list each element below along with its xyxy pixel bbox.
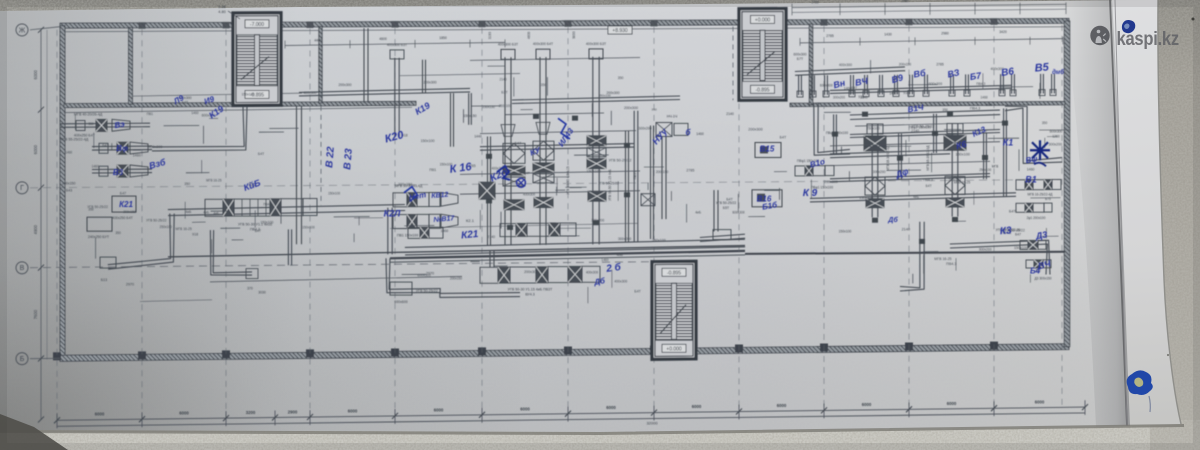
wall: building bottom — [60, 344, 1069, 362]
svg-text:-7.000: -7.000 — [250, 22, 264, 28]
duct: vertical drop x299 — [301, 106, 303, 244]
blue ink blot bottom-right — [1127, 370, 1153, 412]
svg-text:Б4Т: Б4Т — [634, 290, 641, 294]
svg-text:1460: 1460 — [65, 151, 72, 155]
fan row right-bottom x1020 — [1016, 180, 1061, 202]
svg-text:Б4Т: Б4Т — [102, 144, 109, 148]
kaspi.kz watermark — [1090, 26, 1179, 50]
svg-text:Б4: Б4 — [1030, 267, 1041, 276]
svg-text:К1: К1 — [1003, 138, 1014, 148]
svg-text:3190: 3190 — [488, 32, 492, 40]
svg-text:1460: 1460 — [92, 165, 99, 169]
svg-text:2140: 2140 — [902, 228, 910, 232]
svg-text:К3: К3 — [999, 225, 1012, 237]
blue heavy scribble К20 — [497, 166, 510, 180]
svg-text:350: 350 — [184, 182, 190, 186]
small specks on wall — [1192, 18, 1195, 21]
clutter centre — [398, 134, 642, 304]
svg-text:4иБ: 4иБ — [213, 211, 219, 215]
thin line under inner wall left — [64, 107, 412, 112]
svg-text:150x100: 150x100 — [260, 220, 273, 224]
svg-text:350: 350 — [88, 207, 94, 211]
dim line y62 centre — [470, 58, 640, 61]
box В15 — [755, 143, 781, 158]
svg-text:МГВ 16-25/22-4Д: МГВ 16-25/22-4Д — [1028, 192, 1054, 196]
blue notes group — [113, 61, 1064, 287]
svg-text:200x150: 200x150 — [450, 276, 462, 280]
svg-text:300x200: 300x200 — [833, 95, 845, 99]
svg-text:370: 370 — [247, 287, 253, 291]
lower right К3 ducts — [950, 228, 1052, 281]
svg-text:3420: 3420 — [999, 30, 1007, 34]
right extra crossruns — [830, 122, 1005, 166]
svg-text:4600: 4600 — [527, 32, 531, 40]
svg-text:Дб: Дб — [887, 216, 898, 224]
svg-text:Д3: Д3 — [1034, 229, 1048, 241]
svg-text:6000: 6000 — [777, 403, 787, 408]
svg-text:Б47: Б47 — [515, 141, 522, 145]
svg-text:Б13: Б13 — [101, 278, 107, 282]
elevation box +8.930 top centre — [608, 26, 632, 34]
svg-text:6000: 6000 — [434, 407, 444, 412]
duct: centre extra vertical x627 — [628, 131, 630, 243]
svg-text:ПВ4.3: ПВ4.3 — [976, 82, 985, 86]
svg-text:1430: 1430 — [884, 33, 892, 37]
duct: vertical x397 upper — [387, 43, 407, 137]
svg-text:6000: 6000 — [33, 144, 38, 154]
svg-text:В3: В3 — [113, 168, 124, 177]
svg-text:350: 350 — [618, 76, 624, 80]
blue scribble НУ near 410,200 — [404, 187, 417, 202]
AHU column right 2 x955 — [926, 123, 966, 216]
svg-text:2785: 2785 — [826, 34, 834, 38]
svg-text:2140: 2140 — [911, 129, 919, 133]
svg-text:Б: Б — [20, 356, 25, 363]
svg-text:ПВ3Т: ПВ3Т — [633, 171, 637, 179]
wall: building left — [60, 26, 65, 360]
svg-text:4400: 4400 — [314, 38, 322, 42]
svg-text:250x100: 250x100 — [482, 105, 495, 109]
svg-text:6000: 6000 — [348, 409, 358, 414]
svg-text:250x100: 250x100 — [866, 126, 879, 130]
svg-text:МГВ 16-25: МГВ 16-25 — [206, 179, 222, 183]
svg-text:2785: 2785 — [686, 169, 694, 173]
svg-text:3030: 3030 — [258, 290, 266, 294]
svg-text:Б4Т: Б4Т — [780, 136, 787, 140]
duct: upper horizontal y90 left-centre — [299, 88, 470, 92]
centre thin crossruns — [460, 113, 640, 194]
staircase ST3 bottom-centre — [652, 261, 696, 359]
svg-text:Б3Т: Б3Т — [501, 90, 508, 94]
AHU column right 1 x875 — [864, 124, 890, 217]
duct: main corridor run left — [168, 205, 405, 210]
svg-text:Б4Т: Б4Т — [726, 198, 733, 202]
duct right of stair3 top — [700, 230, 745, 242]
svg-text:350: 350 — [651, 108, 656, 112]
small ducts upper-centre-left — [400, 60, 520, 125]
svg-text:Г: Г — [20, 185, 24, 192]
svg-text:400x300: 400x300 — [614, 280, 627, 284]
svg-text:600x300: 600x300 — [793, 53, 806, 57]
svg-text:1460: 1460 — [441, 229, 449, 233]
duct: drop x492 to bottom row — [493, 250, 495, 267]
svg-text:4иБ: 4иБ — [616, 253, 623, 257]
svg-text:МГВ 16-25: МГВ 16-25 — [175, 227, 191, 231]
duct: right top stubs — [797, 74, 1056, 97]
svg-text:9800: 9800 — [572, 31, 576, 39]
svg-text:Ж: Ж — [19, 27, 26, 34]
duct: elbow bottom-left — [108, 214, 171, 265]
clutter right low — [902, 228, 1059, 284]
centre dark fittings — [486, 114, 630, 230]
svg-text:2140: 2140 — [499, 78, 506, 82]
svg-text:6000: 6000 — [862, 402, 872, 407]
svg-text:ПВ1: ПВ1 — [429, 168, 436, 172]
svg-text:918: 918 — [840, 102, 846, 106]
blue heavy scribble ВУ star — [1030, 140, 1050, 166]
svg-text:4иБ: 4иБ — [695, 211, 701, 215]
svg-text:200x300: 200x300 — [338, 83, 351, 87]
wall: building right — [1064, 21, 1070, 347]
grid: horizontal dashed axis lines — [30, 180, 1060, 188]
staircase ST2 top-middle — [739, 9, 786, 101]
wall: corridor vertical x636 — [637, 111, 639, 242]
svg-text:Б4Т: Б4Т — [926, 184, 932, 188]
svg-text:Б4Т: Б4Т — [1009, 209, 1017, 213]
svg-text:400x300: 400x300 — [839, 63, 852, 67]
svg-text:Б4Т: Б4Т — [258, 152, 264, 156]
right dark fittings — [832, 111, 1008, 244]
svg-text:6000: 6000 — [1035, 400, 1045, 405]
paper bottom edge shadow — [0, 424, 1184, 435]
svg-text:МГВ 55-25/22-4Д: МГВ 55-25/22-4Д — [60, 138, 89, 142]
svg-text:К21: К21 — [461, 229, 480, 242]
dim line 2970 — [210, 272, 462, 291]
svg-text:1460: 1460 — [696, 132, 704, 136]
svg-text:918: 918 — [903, 91, 909, 95]
svg-text:УГВ 50-25/22: УГВ 50-25/22 — [416, 289, 438, 293]
svg-text:200x300: 200x300 — [606, 91, 619, 95]
svg-text:4900: 4900 — [33, 224, 38, 234]
svg-text:200x300: 200x300 — [524, 270, 538, 274]
clutter right wing — [811, 60, 1070, 221]
duct: right horizontal y121 — [850, 110, 1000, 115]
svg-text:Вφ: Вφ — [116, 144, 128, 153]
clutter mid — [638, 108, 787, 243]
box K21 left — [112, 196, 136, 220]
duct: branch x452 — [453, 93, 455, 147]
svg-text:В 23: В 23 — [342, 148, 355, 170]
svg-text:200x300: 200x300 — [748, 128, 762, 132]
svg-text:К2Л: К2Л — [384, 209, 402, 219]
svg-text:ПВ4.3: ПВ4.3 — [946, 262, 956, 266]
dim texts top-left cluster — [178, 5, 316, 104]
svg-text:+0.000: +0.000 — [755, 18, 771, 24]
svg-text:350: 350 — [1042, 121, 1048, 125]
svg-text:КВ12: КВ12 — [431, 192, 449, 200]
dim line top middle — [285, 31, 576, 48]
svg-text:150x100: 150x100 — [241, 93, 254, 97]
wall: inner vertical x811 — [809, 24, 813, 105]
svg-text:6000: 6000 — [606, 405, 616, 410]
svg-text:2φ1 200x100: 2φ1 200x100 — [1027, 216, 1046, 220]
svg-text:НЧ-1Ч: НЧ-1Ч — [667, 115, 678, 119]
svg-text:К2.1: К2.1 — [466, 218, 475, 223]
AHU row centre-left 2 — [393, 214, 458, 237]
thin dim line top-left — [130, 93, 302, 96]
svg-text:Б47: Б47 — [1015, 233, 1021, 237]
svg-text:6000: 6000 — [33, 69, 38, 79]
box mid x641 — [641, 194, 655, 206]
svg-text:МГВ 16-16/12-9Д: МГВ 16-16/12-9Д — [926, 145, 930, 171]
svg-text:ПВ4.3: ПВ4.3 — [923, 178, 933, 182]
svg-text:2900: 2900 — [288, 409, 298, 414]
svg-text:+8.930: +8.930 — [612, 28, 628, 34]
duct: vertical x366 upper — [367, 28, 369, 103]
svg-text:150x100: 150x100 — [859, 196, 873, 200]
duct: centre extra vertical x489 — [490, 137, 492, 246]
svg-text:150x100: 150x100 — [421, 139, 435, 143]
svg-text:400x300: 400x300 — [148, 145, 162, 149]
svg-text:МГВ 16-16/12-9Д: МГВ 16-16/12-9Д — [886, 145, 890, 171]
svg-text:350: 350 — [115, 231, 121, 235]
svg-text:Б5Т: Б5Т — [723, 206, 729, 210]
duct: right top horizontal y76 — [795, 67, 905, 72]
svg-text:150x100: 150x100 — [839, 229, 852, 233]
riser column C x596 — [586, 42, 606, 245]
svg-text:200x300: 200x300 — [624, 106, 638, 110]
lower-left elbow ducts — [140, 229, 292, 301]
bottom dimension line — [57, 407, 1085, 420]
dashed line right of stair1 — [320, 106, 322, 205]
svg-text:УГВ 50-25/22: УГВ 50-25/22 — [598, 182, 619, 186]
wall: corridor mid — [390, 251, 745, 258]
svg-text:250x100: 250x100 — [652, 238, 666, 242]
svg-text:200x150: 200x150 — [899, 63, 911, 67]
svg-text:2140: 2140 — [726, 112, 734, 116]
svg-text:В 22: В 22 — [324, 146, 337, 168]
svg-text:-0.895: -0.895 — [667, 271, 681, 277]
svg-text:1460: 1460 — [133, 154, 141, 158]
svg-text:МГВ: МГВ — [992, 164, 999, 168]
svg-text:1460: 1460 — [601, 258, 608, 262]
svg-text:300x200: 300x200 — [979, 248, 992, 252]
svg-text:+0.000: +0.000 — [666, 347, 682, 353]
svg-text:2140: 2140 — [487, 235, 495, 239]
svg-text:400x300 Б4Т: 400x300 Б4Т — [533, 42, 553, 46]
wall: inner horizontal right section — [790, 101, 1065, 106]
svg-text:200x150: 200x150 — [656, 170, 669, 174]
dim line above wall right — [792, 0, 1066, 15]
svg-text:ПВ4.3: ПВ4.3 — [970, 106, 980, 110]
svg-text:Б4Т: Б4Т — [255, 229, 261, 233]
svg-text:400x300: 400x300 — [586, 270, 599, 274]
svg-text:В: В — [20, 265, 25, 272]
duct: drop x922 to y300 — [900, 222, 924, 291]
svg-text:1850: 1850 — [439, 36, 447, 40]
box bottom-left stub — [100, 257, 116, 268]
riser column B x543 — [533, 42, 554, 245]
svg-text:ПВ1: ПВ1 — [147, 112, 154, 116]
clutter left wing — [65, 111, 298, 259]
blue ink spot top-right — [1122, 20, 1135, 33]
svg-text:МГВ 16-25: МГВ 16-25 — [934, 257, 951, 261]
svg-text:Б43: Б43 — [66, 189, 72, 193]
svg-text:В5: В5 — [1034, 61, 1050, 74]
svg-text:600x300: 600x300 — [929, 82, 943, 86]
svg-text:350: 350 — [541, 83, 547, 87]
AHU row centre-left 1 — [393, 184, 458, 207]
blue scribble near 560,130 — [558, 118, 570, 139]
svg-text:К21: К21 — [119, 200, 133, 209]
svg-text:Д3 300x150: Д3 300x150 — [1034, 276, 1051, 280]
dark box x479 — [479, 182, 495, 199]
svg-text:6000: 6000 — [692, 404, 702, 409]
grid: vertical dashed axis lines — [57, 25, 1062, 419]
svg-text:4600: 4600 — [379, 37, 387, 41]
svg-text:400x250 Б4Т: 400x250 Б4Т — [112, 216, 134, 220]
duct: bottom elbow x440 — [389, 258, 520, 293]
corridor duct centre — [405, 239, 745, 247]
svg-text:300x200: 300x200 — [638, 126, 651, 130]
duct: right L-duct x822 — [818, 103, 850, 153]
svg-text:4иБ: 4иБ — [185, 210, 192, 214]
wall: inner horizontal left section — [64, 103, 232, 108]
svg-text:400x300 Б3Т: 400x300 Б3Т — [586, 42, 606, 46]
svg-text:Вб: Вб — [913, 68, 927, 80]
svg-text:2980: 2980 — [941, 31, 949, 35]
svg-text:150x100: 150x100 — [302, 225, 315, 229]
svg-text:200x300: 200x300 — [824, 180, 837, 184]
wall: inner vertical x130 — [129, 27, 133, 104]
svg-text:1460: 1460 — [980, 95, 987, 99]
fan row right-mid x800 — [795, 159, 834, 176]
svg-text:350: 350 — [986, 103, 992, 107]
svg-text:300x200: 300x200 — [873, 170, 886, 174]
svg-text:6000: 6000 — [95, 412, 105, 417]
svg-text:200x150: 200x150 — [123, 210, 136, 214]
svg-text:918: 918 — [192, 232, 198, 236]
thin line below top wall — [64, 27, 1066, 32]
svg-text:200x150: 200x150 — [62, 182, 75, 186]
svg-text:350: 350 — [88, 122, 94, 126]
fold crease lines — [1110, 0, 1127, 426]
svg-text:УГВ 50-30 У1.15 4иБ ПВ3Т: УГВ 50-30 У1.15 4иБ ПВ3Т — [508, 288, 553, 292]
svg-text:1460: 1460 — [1027, 168, 1035, 172]
blue circled X — [517, 178, 526, 187]
svg-text:1460: 1460 — [191, 111, 198, 115]
bottom AHU row centre (ВУ-1) — [480, 266, 600, 296]
left vertical dimension lines — [40, 30, 42, 420]
paper right edge line — [1158, 0, 1181, 424]
svg-text:400x300 Б3Т: 400x300 Б3Т — [387, 43, 407, 47]
svg-text:К 9: К 9 — [803, 188, 818, 199]
svg-text:600x300: 600x300 — [820, 83, 833, 87]
svg-text:150x100: 150x100 — [328, 192, 340, 196]
svg-text:2970: 2970 — [126, 283, 134, 287]
svg-text:300x200: 300x200 — [618, 237, 631, 241]
duct: left fan-coil row 3 — [62, 165, 152, 193]
axis circles left — [16, 24, 28, 36]
svg-text:В15: В15 — [760, 144, 775, 153]
wall pilasters — [53, 18, 998, 360]
svg-text:200x150: 200x150 — [398, 183, 412, 187]
dashed line left of stair2 — [732, 27, 734, 101]
duct: left riser to AHU — [152, 106, 244, 146]
svg-text:240x250 БУТ: 240x250 БУТ — [88, 235, 110, 239]
duct: left fan-coil row 1 — [60, 113, 150, 138]
svg-text:УГВ 50-25/22: УГВ 50-25/22 — [912, 124, 935, 128]
box В16 — [752, 190, 782, 207]
duct: right horizontal y160 — [830, 150, 950, 154]
duct: drop to corridor x390 — [391, 208, 393, 255]
svg-text:400x300 Б3Т: 400x300 Б3Т — [498, 42, 518, 46]
svg-text:В1: В1 — [1025, 175, 1037, 185]
svg-text:150x100: 150x100 — [956, 153, 970, 157]
svg-text:Б7Т: Б7Т — [797, 57, 803, 61]
svg-text:6000: 6000 — [947, 401, 957, 406]
duct: right elbow x1025 — [1005, 106, 1062, 161]
dim line right top y45 — [800, 30, 1063, 46]
svg-text:600x600: 600x600 — [394, 300, 407, 304]
shadow bottom-left corner — [0, 414, 68, 450]
clutter centre top — [464, 66, 639, 125]
svg-text:300x200: 300x200 — [1049, 142, 1063, 146]
wall: inner vertical x320 — [319, 27, 322, 104]
dim texts right cluster — [811, 63, 1063, 234]
svg-text:МГВ 16-25: МГВ 16-25 — [954, 181, 971, 185]
svg-text:МГВ 40-20/26-4Д: МГВ 40-20/26-4Д — [74, 113, 103, 117]
dim line y230 centre — [390, 223, 638, 228]
svg-text:-0.895: -0.895 — [755, 88, 769, 94]
box 600x600 bottom centre — [390, 282, 412, 304]
svg-text:УГВ 50-25/22: УГВ 50-25/22 — [146, 219, 166, 223]
svg-text:2 б: 2 б — [605, 261, 623, 275]
curled right edge highlight — [1112, 0, 1181, 426]
box B13 left-bottom — [87, 217, 112, 239]
svg-text:7600: 7600 — [33, 309, 38, 319]
shading bottom-left of paper — [0, 120, 520, 432]
svg-text:3200: 3200 — [246, 410, 256, 415]
svg-text:4иБ: 4иБ — [913, 195, 919, 199]
svg-text:В6: В6 — [1001, 66, 1016, 79]
fan row right-bottom2 — [1016, 203, 1052, 220]
wall: corridor vertical x652 — [653, 126, 655, 240]
svg-text:ПВ4.3: ПВ4.3 — [263, 202, 272, 206]
unit row above corridor centre — [408, 218, 576, 239]
wall: building top — [60, 18, 1069, 28]
svg-text:2785: 2785 — [936, 63, 944, 67]
fan unit НЧ-14 — [656, 115, 688, 220]
svg-text:6000: 6000 — [179, 411, 189, 416]
svg-text:ВУ4.3: ВУ4.3 — [525, 293, 534, 297]
svg-text:УГВ 30-50 4,5/3,15: УГВ 30-50 4,5/3,15 — [566, 166, 570, 194]
duct: left fan-coil row 2 — [60, 138, 152, 155]
AHU train left (ПВ4.3) — [205, 199, 317, 232]
svg-text:1440: 1440 — [474, 135, 482, 139]
staircase ST1 top-left — [233, 13, 281, 106]
svg-text:4иБ: 4иБ — [203, 210, 209, 214]
svg-text:6000: 6000 — [520, 406, 530, 411]
svg-text:918: 918 — [858, 95, 864, 99]
svg-text:дмб: дмб — [1052, 69, 1064, 76]
right wing lattice — [810, 85, 1016, 202]
riser column A x508 — [498, 42, 525, 245]
svg-text:Б47: Б47 — [120, 192, 126, 196]
svg-text:150x100: 150x100 — [1014, 246, 1028, 250]
svg-text:32000: 32000 — [646, 421, 658, 426]
horizontal manifold y150 — [480, 144, 634, 147]
